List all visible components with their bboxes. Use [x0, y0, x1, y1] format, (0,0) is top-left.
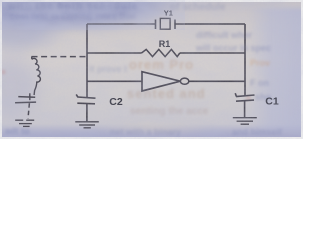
inductor stray L: [32, 58, 41, 95]
capacitor stray C: [15, 93, 36, 118]
ground (stray): [15, 120, 35, 126]
capacitor C2: [76, 94, 95, 121]
wire left bus: [86, 24, 88, 97]
crystal Y1: [156, 18, 176, 29]
capacitor C1: [235, 93, 254, 117]
bleed-through text from reverse page (decorative): [8, 1, 138, 12]
wire dashed stray corner: [31, 57, 33, 60]
resistor R1: [142, 49, 180, 56]
svg-text:Y1: Y1: [164, 8, 173, 17]
wire R1 left lead: [87, 52, 142, 54]
svg-text:C2: C2: [109, 96, 123, 108]
ground (C1): [233, 118, 257, 125]
wire right bus: [244, 24, 246, 95]
ground (C2): [75, 122, 99, 128]
wire top-left segment: [87, 23, 156, 25]
wire R1 right lead: [180, 52, 245, 54]
svg-text:C1: C1: [265, 96, 279, 108]
wire inverter input: [87, 80, 142, 82]
wire dashed stray branch horizontal: [32, 56, 88, 58]
op-amp inverter U1: [142, 72, 189, 91]
svg-text:R1: R1: [159, 39, 171, 49]
wire inverter output: [188, 80, 245, 82]
wire top-right segment: [175, 23, 245, 25]
